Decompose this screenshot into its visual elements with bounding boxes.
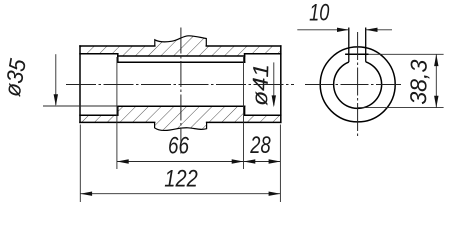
keyway floor chord <box>345 53 368 55</box>
ext line 66 left <box>116 57 118 169</box>
bore bottom line <box>118 105 245 107</box>
hatched wall: right top band <box>245 46 281 54</box>
svg-text:10: 10 <box>309 0 330 27</box>
dim phi41 line <box>273 62 275 105</box>
arrow 28 right <box>269 159 281 163</box>
left counterbore top line <box>80 53 118 55</box>
ext 38.3 bottom (bore bottom extended) <box>358 107 444 109</box>
svg-text:38,3: 38,3 <box>405 59 432 105</box>
arrow 28 left <box>244 159 256 163</box>
outer circle <box>320 47 395 122</box>
arrow 38.3 down <box>434 96 438 108</box>
keyway left side <box>348 28 350 63</box>
left counterbore bottom line <box>80 114 118 116</box>
svg-text:122: 122 <box>164 165 198 192</box>
dim 66 line <box>117 161 244 163</box>
svg-text:ø41: ø41 <box>247 63 273 106</box>
dim phi35 line <box>55 54 57 105</box>
vertical centerline of side view <box>180 28 182 154</box>
hatched wall: left bottom band <box>80 115 118 122</box>
right counterbore bottom line <box>245 114 281 116</box>
arrow 122 left <box>80 192 92 196</box>
horizontal centerline of side view <box>66 84 294 86</box>
arrow phi41 down <box>272 95 276 107</box>
end view horizontal centerline <box>305 84 401 86</box>
left end face <box>79 46 81 122</box>
hatched wall: middle top band <box>118 46 245 56</box>
ext line 122 left <box>79 125 81 203</box>
wavy break line top <box>155 36 207 46</box>
dim 10 line left <box>297 29 349 31</box>
arrow 122 right <box>269 192 281 196</box>
svg-text:28: 28 <box>250 132 272 159</box>
hatched wall: right bottom band <box>245 115 281 122</box>
arrow phi35 down <box>54 94 58 106</box>
hatched wall: middle bottom band <box>118 106 245 122</box>
arrow 10 right <box>366 28 378 32</box>
right end face <box>280 46 282 122</box>
dim 122 line <box>80 193 280 195</box>
contour outlines (thick) <box>80 46 281 122</box>
ext line 28/122 right <box>279 125 281 203</box>
keyway right side <box>365 28 367 62</box>
dim phi35 extension line <box>43 105 118 107</box>
end view vertical centerline <box>357 32 359 138</box>
svg-text:66: 66 <box>168 133 190 160</box>
arrow 10 left <box>337 28 349 32</box>
arrow 66 right <box>232 159 244 163</box>
wavy break line bottom <box>155 122 207 130</box>
top break-out bump (hatched) <box>155 36 207 46</box>
dim 28 line <box>244 161 281 163</box>
dim 10 line right tail <box>366 29 392 31</box>
hatched wall: left top band <box>80 46 118 54</box>
bore top line <box>118 61 245 63</box>
ext 38.3 top (keyway floor extended) <box>369 53 444 55</box>
ext line 66/28 middle <box>243 57 245 169</box>
dim 38.3 line <box>435 54 437 107</box>
outer bottom line <box>80 121 281 123</box>
arrow 66 left <box>117 159 129 163</box>
right counterbore face <box>244 54 246 115</box>
outer top line <box>80 45 281 47</box>
keyway floor line <box>118 55 245 57</box>
bottom break-out bump (hatched) <box>155 122 207 130</box>
inner bore circle (interrupted by keyway) <box>334 62 382 109</box>
arrow 38.3 up <box>434 54 438 66</box>
left counterbore face <box>117 54 119 115</box>
right counterbore top line <box>245 53 281 55</box>
